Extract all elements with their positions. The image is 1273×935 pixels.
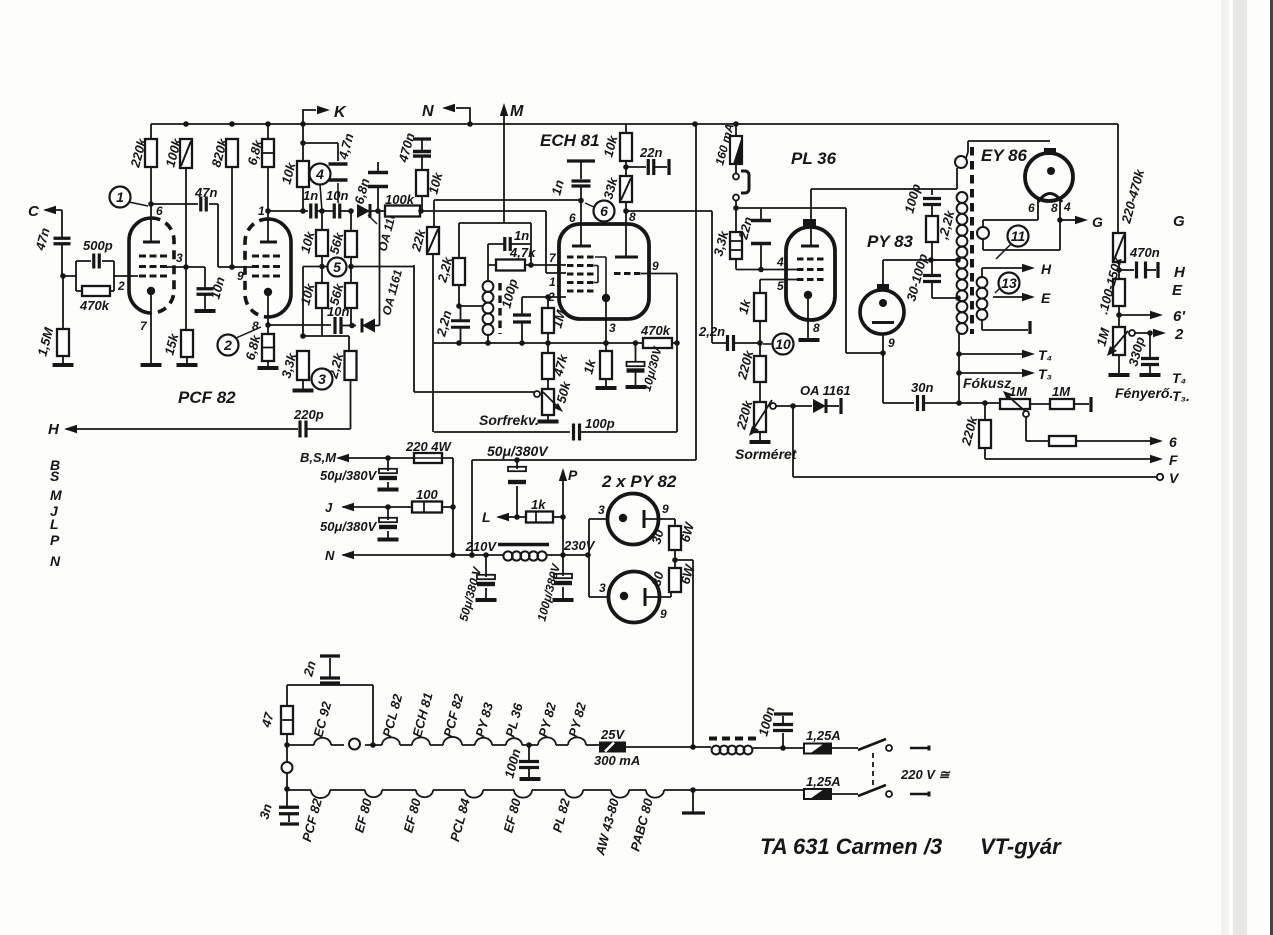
node wiper diode [790,403,796,409]
svg-text:6': 6' [1173,308,1185,325]
wire 50u 210V leads [485,555,487,598]
mains choke core dashes [709,737,757,741]
node bottom gnd [690,787,696,793]
capacitor 50u J [379,518,397,529]
resistor 56k upper [345,231,357,257]
wire EY86 pin8 [1059,198,1061,220]
wiper terminal 220k [770,403,776,409]
wire 220k3 leads [984,403,986,459]
arrow H [1022,264,1035,272]
svg-text:PL 36: PL 36 [791,149,837,168]
anode bar PY82 upper [643,510,646,528]
wire H top [982,268,1022,277]
wire 220k bottom [150,167,152,204]
capacitor 1n [311,204,317,219]
arrow H [64,425,77,433]
ground 10u [626,385,647,389]
node 3,3k top [300,333,306,339]
wire 30l top [674,560,676,568]
wire 6 line right [1076,440,1150,442]
wire 100p feedback [434,431,570,433]
terminal bar 470n top [413,137,431,140]
wire F line [985,458,1150,460]
resistor 4,7k [496,260,525,271]
scan edge line [1225,0,1272,935]
wire 10n to diode [340,210,352,212]
pointer circled 1 [129,202,148,206]
svg-text:S: S [50,468,60,484]
nodes 460 line [514,457,520,463]
wire loop to bottom chain [286,773,288,789]
resistor 1k ECH81 [600,351,612,379]
wire 22n [626,166,646,168]
heater jumper loop [349,739,360,750]
wire 1.5M to ground [62,356,64,364]
svg-text:25V: 25V [600,727,625,742]
svg-text:210V: 210V [465,539,498,554]
wire to K output [303,110,316,124]
svg-text:PY 83: PY 83 [867,232,914,251]
wire 50k gnd [547,415,549,420]
wire 10k K column [302,124,304,211]
node P 1k [560,514,566,520]
tube V2 ECH81 envelope [559,224,649,319]
wire 470k right [672,342,677,344]
anode bar PY82 lower [644,588,647,606]
capacitor 220p [300,421,306,438]
svg-text:C: C [28,203,40,220]
svg-text:G: G [1092,214,1103,230]
cathode dot EY86 [1047,167,1055,175]
svg-text:50μ/380V: 50μ/380V [320,468,378,483]
wire 100n heater stem [528,745,530,760]
wire wiper to diode [776,405,812,407]
resistor 10k K [297,161,309,187]
wire BSM line [338,457,414,459]
wire 230V segment [546,554,589,556]
resistor 10k ECH81 [620,133,632,161]
wire osc bottom bus [433,342,643,344]
resistor 220 4W [414,453,442,463]
ground PL36 [799,338,820,342]
wire 47 top [287,685,373,745]
AW43-80 bottom bump [611,790,629,798]
svg-text:3: 3 [598,503,605,517]
svg-text:N: N [325,548,335,563]
tube V3 PY82 upper envelope [608,494,659,545]
capacitor 30n [918,395,924,411]
wire 100n mains stem [782,733,784,748]
nodes circled5 row [319,264,354,270]
arrow 6 [1150,437,1163,445]
grid dashes ECH81 hexode [567,257,594,291]
terminal 2n [320,654,340,657]
wire fuse to switch [735,164,737,173]
wire 330p [1149,333,1151,358]
wire tube2 cathode [267,296,269,334]
tube V1 PCF82 triode envelope [129,218,152,313]
wire heater loop bottom [983,220,1060,250]
arrow N power [341,551,354,559]
resistor 22k [427,227,439,254]
ground 3,3k [293,389,314,393]
capacitor 22n PL36 [751,221,771,244]
capacitor 50u BSM [379,469,397,480]
capacitor 2,2n osc [451,321,470,328]
arrow T3 [1022,369,1035,377]
resistor 15k [181,330,193,357]
wire N line [343,554,504,556]
cathode bar PY83 [872,321,894,324]
svg-text:3: 3 [318,371,326,387]
cathode dot PY82 upper [619,514,627,522]
wire 160mA top [735,124,737,136]
wire 1k to P [553,516,563,518]
circled 2 [218,335,239,356]
wire mains terminal upper [910,747,928,749]
terminal tick lower [928,792,931,797]
wire 30-100p leads [932,260,958,298]
capacitor 4,7n [329,164,348,180]
tube V5 PL36 envelope [786,227,835,320]
ground BSM cap [378,488,399,492]
wire J cap leads [387,507,389,538]
capacitor 3n [279,807,299,814]
wire Fokusz right [1030,403,1050,405]
wire 6,8k top [267,124,269,139]
resistor 2,2k osc [453,258,465,285]
svg-text:13: 13 [1001,275,1017,291]
wire main B+ top rail [151,123,1118,125]
top cap EY86 [1044,148,1056,155]
wire pin8 to PL36 grid net [626,211,727,343]
anode bar tube2 [260,241,277,244]
wire 15k ground [186,357,188,364]
resistor 820k [226,139,238,167]
wire 2,2k to H line [306,380,351,429]
svg-text:H: H [1041,261,1052,277]
wire 10k 33k join [625,161,627,176]
wire PL36 cathode [807,299,809,338]
wire to 2,2k top [303,336,349,351]
wire PY82l anode [645,592,671,597]
wire ECH81 cathode [605,302,607,351]
svg-text:F: F [1169,452,1178,468]
resistor 33k [620,176,632,202]
svg-text:9: 9 [237,269,244,283]
wire fuse1 to switch [831,747,858,749]
wire to 1.5M [62,276,64,329]
node diode2 left [349,323,355,329]
wire 4,7n top [303,143,338,161]
node 4,7n tap [300,140,306,146]
resistor 1,5M [57,329,69,356]
wire primary bottom [958,334,960,403]
grid dashes tube1 [139,256,167,276]
resistor 470k grid [82,286,110,296]
arrow C [43,206,56,214]
pointer circled 2 [236,327,261,338]
wire BSM cap leads [387,458,389,488]
wire row right [351,265,414,392]
arrow 2 [1153,329,1166,337]
svg-text:4: 4 [1063,200,1071,214]
wire chain to mains [626,746,693,748]
terminal bar above 1p [567,159,595,162]
potentiometer 1M Fokusz [1000,399,1030,409]
junction dots on top rail [183,121,739,127]
arrow 6prime [1150,311,1163,319]
switch circle upper [886,745,892,751]
node 30 30 [672,557,678,563]
resistor 1k PL36 [754,293,766,321]
ground 15k [177,363,198,367]
wire pin8 row [268,324,331,326]
wire 1M gnd [1118,355,1120,373]
inductor mains filter [712,746,753,755]
resistor 10k 470n [416,170,428,196]
wire 3,3k2 top [735,208,737,232]
wires ladder lower [322,267,351,336]
capacitor 30-100p [923,276,941,282]
inductor flyback primary [957,192,968,334]
resistor 56k lower [345,283,357,308]
wire wiper feedback [414,391,534,393]
EC92 heater bump [314,738,331,745]
wire 2,2n2 right [734,342,760,344]
svg-text:30n: 30n [911,380,933,395]
svg-text:3: 3 [609,321,616,335]
wire loop link [286,745,288,762]
wire 6,8n stubs [377,162,379,211]
svg-text:300 mA: 300 mA [594,753,640,768]
wire 47 bottom [286,734,288,745]
ground J cap [378,538,399,542]
svg-text:11: 11 [1011,228,1026,244]
wire coil top [487,265,489,281]
node 6,8n junction [375,208,381,214]
ground tube1 cathode [141,363,162,367]
wire PY83 pin9 [883,334,914,403]
svg-text:N: N [50,553,61,569]
wire anode row left [268,210,308,212]
inductor heater secondary [977,277,988,320]
coil core dashes [498,283,501,334]
svg-text:6: 6 [1169,434,1177,450]
capacitor 500p [94,254,100,269]
svg-text:G: G [1173,213,1185,230]
node circled10 [757,340,763,346]
svg-text:P: P [50,532,60,548]
svg-text:2 x PY 82: 2 x PY 82 [601,472,677,491]
resistor 220-470k [1113,233,1125,262]
wire between 1n 10n [316,210,335,212]
wire L cap leads [516,460,518,517]
EF80c bottom bump [514,790,532,798]
node pin6 junction [148,201,154,207]
arrow J [341,503,354,511]
ground 330p [1140,373,1161,377]
potentiometer 1M brightness [1113,327,1125,355]
capacitor 100n heater [519,762,539,768]
stem circled 4 [320,185,322,212]
terminal tick upper [928,746,931,751]
svg-text:1M: 1M [1009,384,1028,399]
wire 100k to pin3 row [185,168,187,330]
wire 10n2 to diode2 [341,325,356,327]
PL82 bottom bump [565,790,583,798]
fuse 25V 300mA [599,742,626,753]
wire x472 up [472,460,696,555]
svg-text:3: 3 [599,581,606,595]
svg-text:3: 3 [176,251,183,265]
wire 100p3 top [931,189,933,195]
nodes N line [450,552,489,558]
resistor 470k AGC [643,338,672,348]
wiper arrow 220k [749,400,772,436]
resistor 1k decoupling [526,512,553,523]
wire boost to PY83 [846,208,883,353]
svg-text:1,25A: 1,25A [806,728,841,743]
svg-text:P: P [568,467,578,483]
circled 4 [310,164,331,185]
wire 2n stem [329,658,331,678]
inductor overwinding loop [955,156,967,168]
node pin7 [528,262,534,268]
svg-text:2,2n: 2,2n [698,324,725,339]
wire 100n mains top [782,716,784,724]
ground 100u [553,598,574,602]
svg-text:4,7k: 4,7k [509,245,536,260]
cathode dot tube2 [264,288,272,296]
node pin8 ECH81 [623,208,629,214]
ground 10n [195,309,216,313]
svg-text:6: 6 [569,211,576,225]
wire heater top chain [287,744,599,746]
wire 3,3k gnd [302,380,304,389]
potentiometer 50k Sorfrekv [542,389,554,415]
wire 1p stem top [580,161,582,179]
switch contact upper [733,174,739,180]
capacitor 100n mains [773,725,793,731]
svg-text:1M: 1M [1052,384,1071,399]
svg-text:9: 9 [660,607,667,621]
cathode dot ECH81 [602,294,610,302]
node 100p3 tap [928,257,934,263]
wire pin5 PL36 [760,280,797,294]
wire 3,3k2 bottom [736,259,797,270]
node pin3 [183,264,189,270]
grid dashes ECH81 triode [614,272,641,275]
node 10k 470n junction [418,208,424,214]
wire 470n2 [1119,269,1134,271]
wire 10u leads [635,343,637,385]
capacitor 10u 30V [627,362,645,373]
capacitor 10n grid [197,289,214,295]
node mains join [690,744,696,750]
capacitor 1p ECH81 [572,181,591,186]
svg-text:E: E [1172,282,1183,299]
node cathode 1k [603,340,609,346]
svg-text:220p: 220p [293,407,324,422]
tube V1b PCF82 pentode envelope [268,219,291,317]
wire 6,8k to tube2 plate [267,167,269,242]
wire 4,7n bottom stub [337,183,339,203]
svg-text:5: 5 [333,259,341,275]
arrow K [317,106,330,114]
resistor 1M anode [1050,399,1074,409]
resistor 100-150k [1113,279,1125,306]
svg-text:47n: 47n [194,185,217,200]
wire 6,8k cathode ground [267,361,269,366]
inductor oscillator coil [483,281,494,335]
wiper arrow 1M brightness [1107,331,1128,356]
wire PY82u pin3 [589,519,607,555]
svg-text:22n: 22n [639,145,662,160]
svg-text:100: 100 [416,487,438,502]
svg-text:M: M [50,487,62,503]
wire 100p to pin9 line [580,431,677,433]
capacitor 6,8n [368,173,388,187]
wire 10k to node [421,196,423,211]
resistor 3,3k PL36 [730,232,742,259]
wire to N output [456,108,470,124]
wire pin6 to 47n [151,203,198,205]
svg-text:L: L [50,516,59,532]
capacitor 470n CRT [1137,262,1146,279]
svg-text:6: 6 [156,204,163,218]
wire 470n stem [421,140,423,150]
wire EY86 pin6 [983,198,1038,227]
svg-text:6: 6 [600,203,608,219]
svg-text:9: 9 [888,336,895,350]
resistor 10k lower [316,283,328,308]
nodes 230V [560,552,591,558]
nodes osc bus [456,340,638,346]
svg-text:5: 5 [777,279,784,293]
svg-text:9: 9 [662,502,669,516]
svg-text:T₃: T₃ [1038,366,1052,382]
top cap PL36 [803,219,816,227]
fuse 160mA [730,136,742,164]
svg-text:L: L [482,509,491,525]
svg-text:B,S,M: B,S,M [300,450,337,465]
grid dashes tube2 [252,256,280,276]
wire 220k top [150,124,152,139]
svg-text:Fényerő.: Fényerő. [1115,385,1173,401]
wire pin8 into tube [625,211,627,257]
switch gang link dashes [872,753,874,788]
svg-text:470k: 470k [640,323,671,338]
resistor 220k hold [754,356,766,382]
wire 1M leads [547,297,549,343]
PY82b heater bump [568,737,586,745]
wire V line [793,406,1157,477]
PCF82 bottom bump [311,790,330,798]
svg-text:1n: 1n [303,188,318,203]
ground 6,8k cathode [258,366,279,370]
wire 6prime [1119,314,1150,316]
wire tube1 cathode to ground [150,295,152,364]
EF80b bottom bump [416,790,433,797]
node 100n mains [780,745,786,751]
tube V4 PY82 lower envelope [609,572,660,623]
fuse 1,25A upper [804,744,831,754]
wire coil bottom [487,335,489,343]
wire M line [503,108,505,223]
wire2 100k output [420,211,566,273]
wire boost to anode [736,207,846,209]
